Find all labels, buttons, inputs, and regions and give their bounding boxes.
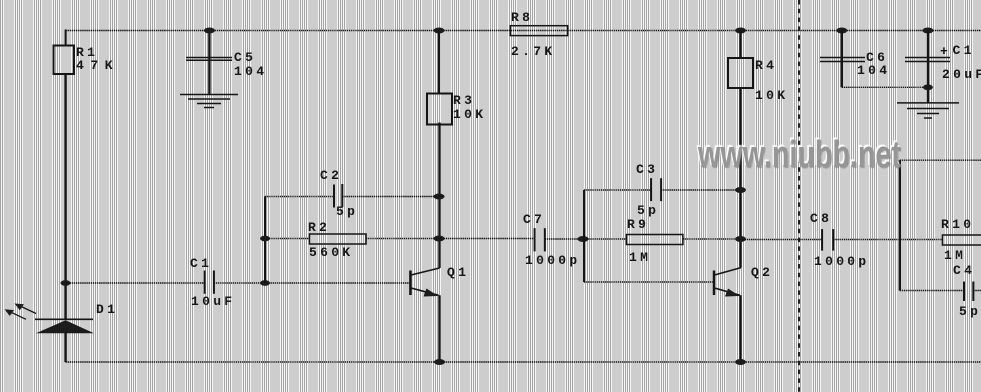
capacitor C4 plates [963, 282, 965, 302]
junction node (rail / R3) [434, 28, 445, 34]
resistor R8 [510, 26, 567, 36]
wire base Q2 [584, 281, 714, 283]
wire Q2 emitter to bottom rail [739, 295, 741, 362]
label 2.7K [511, 45, 555, 58]
wire top supply rail [66, 30, 981, 32]
label R10 [941, 218, 974, 231]
label 1M of R10 [944, 249, 966, 262]
label C1 input [190, 257, 212, 270]
photodiode D1 cathode bar [35, 318, 93, 320]
wire Q1 emitter to bottom rail [438, 295, 440, 362]
label 1M of R9 [629, 251, 651, 264]
transistor Q2 emitter arm with arrow [715, 288, 741, 295]
transistor Q1 collector arm [411, 268, 440, 275]
label 5p of C2 [336, 205, 358, 218]
label 47K [76, 59, 119, 72]
wire D1 anode to bottom rail [64, 333, 66, 362]
junction node (base wire / R1 branch) [61, 280, 71, 286]
label 560K [309, 246, 353, 259]
wire C4 to edge [973, 290, 981, 292]
capacitor C3 plates [650, 178, 652, 201]
wire R9 row stage2 [584, 238, 626, 240]
wire stage2 C3 row left [584, 189, 651, 191]
junction node (emitter / bottom rail Q2) [735, 359, 746, 365]
capacitor C6 lead from rail [841, 31, 843, 88]
wire R3 to Q1 collector [438, 123, 440, 269]
capacitor C5 plates [186, 57, 232, 59]
label 1000p of C8 [814, 255, 870, 268]
label C1 output [953, 44, 975, 57]
label 10K of R3 [453, 108, 486, 121]
capacitor C2 plates [333, 185, 335, 208]
resistor R2 [310, 234, 367, 244]
resistor R9 [626, 235, 683, 245]
label C3 [636, 163, 658, 176]
label 5p of C3 [637, 204, 659, 217]
wire R2 row stage1 [265, 238, 310, 240]
wire C8 to R10 [833, 239, 942, 241]
label C5 [234, 51, 256, 64]
label 5p of C4 [959, 305, 981, 318]
label 1000p of C7 [525, 254, 581, 267]
wire R1 bottom to D1 [64, 74, 66, 319]
wire collector Q1 to C7 [440, 238, 535, 240]
transistor Q1 emitter arm with arrow [411, 288, 439, 295]
junction node (collector2 / C3 wire) [735, 187, 746, 193]
junction node (stage2 input) [578, 236, 589, 242]
ground symbol (C5) [180, 95, 238, 108]
label + C1 output [940, 45, 951, 58]
junction node (collector / C2 wire) [434, 194, 445, 200]
wire C6 bottom to C1 output bottom [842, 86, 928, 88]
capacitor C1 output plates [905, 57, 950, 59]
wire rail to R4 [739, 31, 741, 59]
label R2 [308, 221, 330, 234]
transistor Q1 base bar [409, 271, 412, 296]
wire stage3 left vertical [899, 160, 901, 290]
wire R4 to Q2 collector [739, 88, 741, 268]
wire feedback left vertical stage1 [264, 197, 266, 284]
label C7 [523, 213, 545, 226]
light arrow 2 of D1 [5, 309, 27, 319]
junction node (R2 wire / vertical) [260, 236, 270, 242]
transistor Q2 base bar [713, 271, 716, 296]
resistor R10 (cut off at edge) [943, 235, 981, 245]
photodiode D1 triangle [36, 320, 94, 333]
junction node (base wire / feedback vertical stage1) [260, 280, 270, 286]
section divider dashed line [798, 0, 800, 392]
resistor R3 [427, 94, 452, 125]
label C2 [320, 169, 342, 182]
label R9 [627, 218, 649, 231]
junction node (collector / R2 wire) [434, 236, 445, 242]
label Q1 [447, 266, 469, 279]
label 104 [234, 65, 267, 78]
wire C2 to collector [342, 196, 439, 198]
wire stage3 collector rail top [900, 159, 981, 161]
label R1 [76, 46, 98, 59]
transistor Q2 collector arm [715, 268, 742, 275]
capacitor C6 plates [820, 57, 865, 59]
label 10uF [191, 295, 235, 308]
wire stage1 C2 row left [265, 196, 334, 198]
label R3 [453, 94, 475, 107]
wire collector Q2 to C8 [741, 239, 822, 241]
ground symbol (C1 output) [897, 103, 959, 118]
junction node (rail / C1 output) [922, 28, 933, 34]
label R4 [755, 59, 777, 72]
junction node (collector2 / R9 wire) [735, 236, 746, 242]
wire stage3 bottom to C4 [900, 290, 964, 292]
capacitor C1 output lead from rail [927, 31, 929, 103]
wire feedback left vertical stage2 [583, 190, 585, 282]
junction node (rail / R4) [735, 28, 746, 34]
junction node (rail / C5) [204, 28, 215, 34]
resistor R1 [54, 46, 75, 75]
label 10K of R4 [755, 89, 788, 102]
label C4 [953, 264, 975, 277]
label 104 of C6 [857, 64, 890, 77]
junction node (rail / C6) [836, 28, 847, 34]
label C8 [810, 212, 832, 225]
label D1 [96, 303, 118, 316]
wire left vertical (R1 branch) corner [66, 31, 67, 46]
label Q2 [751, 266, 773, 279]
label 20uF [942, 68, 981, 81]
wire bottom ground rail [66, 361, 981, 363]
label R8 [511, 11, 533, 24]
capacitor C1 input plates [204, 271, 206, 294]
wire rail to R3 [438, 31, 440, 95]
wire base Q1 (from D1 node through C1 to base) [66, 282, 205, 284]
wire C7 to stage2 input node [545, 238, 584, 240]
capacitor C8 plates [821, 229, 823, 251]
label C6 [866, 51, 888, 64]
junction node (emitter / bottom rail Q1) [434, 359, 445, 365]
junction node (C6 wire / C1 output lead) [923, 84, 933, 90]
light arrow 1 of D1 [15, 304, 37, 314]
wire C3 to collector stage2 [661, 189, 740, 191]
watermark [698, 134, 901, 177]
capacitor C7 plates [534, 228, 536, 251]
resistor R4 [728, 58, 753, 88]
capacitor C5 lead from rail [208, 31, 210, 95]
